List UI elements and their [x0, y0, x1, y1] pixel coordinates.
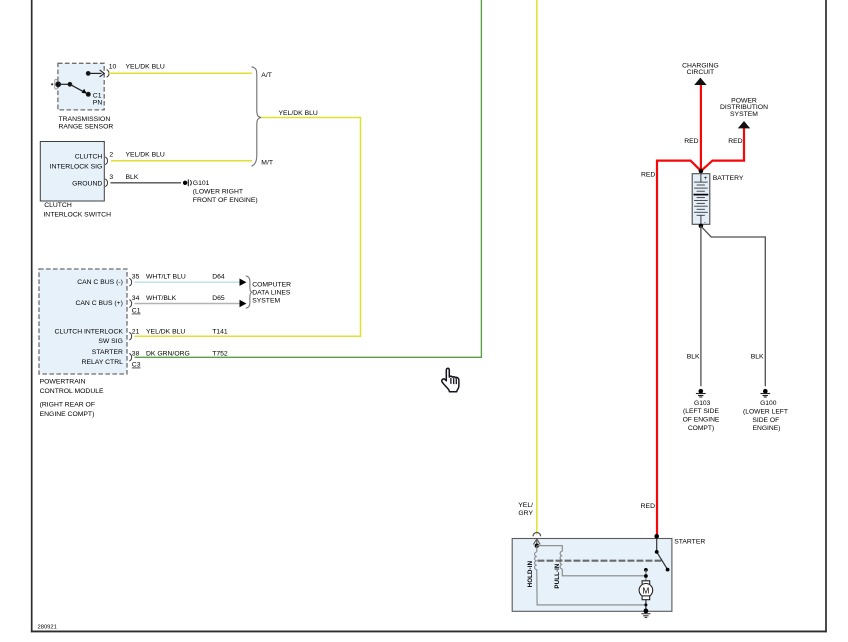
svg-text:C1: C1 — [132, 308, 141, 315]
wire BLK battery to G103 — [700, 226, 702, 386]
brace merging A/T and M/T — [252, 67, 262, 166]
wire YEL/GRY vertical run to starter — [536, 0, 538, 535]
wire DK GRN/ORG pin38 run up page — [135, 0, 482, 357]
svg-text:280921: 280921 — [38, 625, 57, 631]
starter inlet connector arc — [533, 532, 541, 536]
svg-text:(LOWER RIGHT: (LOWER RIGHT — [193, 189, 243, 196]
wire RED battery to starter vertical — [657, 161, 701, 536]
solenoid switch — [657, 539, 668, 570]
svg-text:RED: RED — [641, 503, 655, 510]
wire RED charging circuit — [700, 84, 702, 171]
clutch interlock switch box — [40, 142, 104, 202]
svg-text:POWERTRAIN: POWERTRAIN — [40, 379, 86, 386]
svg-text:G103: G103 — [694, 400, 711, 407]
arrowhead power distribution — [738, 121, 750, 128]
pull-in coil — [537, 546, 646, 576]
svg-text:CLUTCH: CLUTCH — [44, 202, 72, 209]
node starter solenoid feed — [654, 534, 659, 539]
svg-text:CLUTCH INTERLOCK: CLUTCH INTERLOCK — [55, 328, 124, 335]
starter box — [512, 539, 672, 612]
svg-text:TRANSMISSION: TRANSMISSION — [59, 116, 111, 123]
svg-text:ENGINE COMPT): ENGINE COMPT) — [40, 411, 95, 418]
wire BLK battery to G100 — [702, 227, 766, 386]
svg-text:COMPT): COMPT) — [688, 425, 714, 432]
battery — [692, 174, 710, 226]
svg-text:-: - — [704, 220, 706, 226]
svg-text:BLK: BLK — [687, 354, 700, 361]
starter inlet arrow and feed — [533, 539, 540, 546]
svg-text:SW SIG: SW SIG — [98, 338, 123, 345]
svg-text:BLK: BLK — [126, 174, 139, 181]
svg-text:BATTERY: BATTERY — [713, 175, 744, 182]
svg-text:SYSTEM: SYSTEM — [252, 298, 280, 305]
node starter coil feed junction — [535, 544, 539, 548]
svg-text:HOLD-IN: HOLD-IN — [527, 560, 534, 587]
arrowhead charging circuit — [694, 78, 706, 85]
node battery negative junction — [699, 224, 704, 229]
node battery positive junction — [699, 169, 704, 174]
wire WHT/BLK pin34 — [135, 303, 241, 305]
starter case ground — [641, 614, 650, 618]
transmission range sensor connector C1 (left) — [51, 79, 57, 89]
svg-text:CAN C BUS (-): CAN C BUS (-) — [77, 279, 123, 286]
svg-text:3: 3 — [109, 174, 113, 181]
svg-text:OF ENGINE: OF ENGINE — [683, 417, 720, 424]
svg-text:T141: T141 — [212, 329, 228, 336]
ground G103 — [696, 389, 706, 397]
svg-text:38: 38 — [132, 351, 140, 358]
svg-text:A/T: A/T — [261, 72, 272, 79]
svg-text:RANGE SENSOR: RANGE SENSOR — [59, 124, 114, 131]
svg-text:CONTROL MODULE: CONTROL MODULE — [40, 388, 104, 395]
svg-text:FRONT OF ENGINE): FRONT OF ENGINE) — [193, 197, 258, 204]
svg-text:COMPUTER: COMPUTER — [252, 282, 291, 289]
svg-text:WHT/BLK: WHT/BLK — [146, 295, 177, 302]
wire YEL/DK BLU pin2 to brace (M/T) — [111, 160, 252, 162]
svg-text:PN: PN — [93, 99, 103, 106]
svg-text:RED: RED — [641, 171, 655, 178]
svg-text:YEL/: YEL/ — [518, 502, 533, 509]
svg-text:STARTER: STARTER — [674, 538, 705, 545]
PCM pin 38 connector arc — [129, 353, 131, 361]
svg-text:YEL/DK BLU: YEL/DK BLU — [126, 151, 165, 158]
svg-text:STARTER: STARTER — [92, 349, 123, 356]
svg-text:2: 2 — [109, 151, 113, 158]
svg-text:M: M — [642, 586, 649, 595]
arrowhead pin35 — [240, 279, 247, 286]
svg-text:CAN C BUS (+): CAN C BUS (+) — [75, 300, 122, 307]
svg-text:YEL/DK BLU: YEL/DK BLU — [146, 329, 185, 336]
svg-text:YEL/DK BLU: YEL/DK BLU — [126, 64, 165, 71]
svg-text:PULL-IN: PULL-IN — [554, 563, 561, 589]
svg-text:DATA LINES: DATA LINES — [252, 290, 291, 297]
svg-text:RED: RED — [684, 138, 698, 145]
PCM pin 21 connector arc — [129, 332, 131, 340]
PCM pin 35 connector arc — [129, 278, 131, 286]
svg-text:G101: G101 — [193, 180, 210, 187]
svg-text:GROUND: GROUND — [72, 180, 102, 187]
svg-text:YEL/DK BLU: YEL/DK BLU — [279, 110, 318, 117]
svg-text:DK GRN/ORG: DK GRN/ORG — [146, 351, 190, 358]
svg-text:(LEFT SIDE: (LEFT SIDE — [683, 408, 719, 415]
PCM pin 34 connector arc — [129, 300, 131, 308]
svg-text:ENGINE): ENGINE) — [753, 425, 781, 432]
ground splice G101 — [183, 179, 192, 186]
ground G100 — [760, 389, 770, 397]
motor M — [639, 581, 653, 611]
svg-text:CLUTCH: CLUTCH — [75, 154, 103, 161]
wire YEL/DK BLU merged run to PCM pin 21 — [135, 118, 361, 337]
wire RED power distribution — [701, 128, 744, 171]
switch contacts inside transmission range sensor — [56, 70, 104, 96]
svg-text:T752: T752 — [212, 351, 228, 358]
svg-text:+: + — [704, 175, 708, 182]
svg-text:(RIGHT REAR OF: (RIGHT REAR OF — [40, 402, 95, 409]
wire BLK pin3 to G101 — [111, 182, 182, 184]
pin 2 connector arc — [105, 157, 107, 165]
svg-text:RED: RED — [728, 138, 742, 145]
svg-text:G100: G100 — [760, 400, 777, 407]
svg-text:C3: C3 — [132, 362, 141, 369]
pin 10 connector arc — [107, 70, 109, 78]
svg-text:RELAY CTRL: RELAY CTRL — [82, 359, 124, 366]
svg-text:CIRCUIT: CIRCUIT — [687, 69, 715, 76]
wire WHT/LT BLU pin35 — [135, 281, 241, 283]
motor feed node — [644, 568, 648, 572]
pin 3 connector arc — [105, 179, 107, 187]
svg-text:34: 34 — [132, 295, 140, 302]
brace computer data lines — [246, 276, 253, 308]
svg-text:BLK: BLK — [751, 354, 764, 361]
mouse cursor — [442, 368, 459, 392]
svg-text:INTERLOCK SIG: INTERLOCK SIG — [50, 164, 103, 171]
powertrain control module box — [39, 269, 127, 374]
svg-text:SYSTEM: SYSTEM — [730, 111, 758, 118]
hold-in coil — [535, 546, 646, 605]
wire YEL/DK BLU pin10 to brace (A/T) — [109, 72, 252, 74]
motor return wire — [644, 603, 647, 606]
svg-text:10: 10 — [109, 64, 117, 71]
transmission range sensor box — [58, 63, 104, 110]
svg-text:(LOWER LEFT: (LOWER LEFT — [743, 408, 788, 415]
svg-text:INTERLOCK SWITCH: INTERLOCK SWITCH — [43, 211, 111, 218]
svg-text:WHT/LT BLU: WHT/LT BLU — [146, 273, 186, 280]
svg-text:M/T: M/T — [261, 160, 273, 167]
svg-text:D65: D65 — [212, 295, 225, 302]
svg-text:35: 35 — [132, 273, 140, 280]
svg-text:SIDE OF: SIDE OF — [752, 417, 779, 424]
svg-text:GRY: GRY — [518, 510, 533, 517]
svg-text:21: 21 — [132, 329, 140, 336]
svg-text:D64: D64 — [212, 273, 225, 280]
dashed actuation line — [538, 560, 663, 562]
arrowhead pin34 — [240, 300, 247, 307]
